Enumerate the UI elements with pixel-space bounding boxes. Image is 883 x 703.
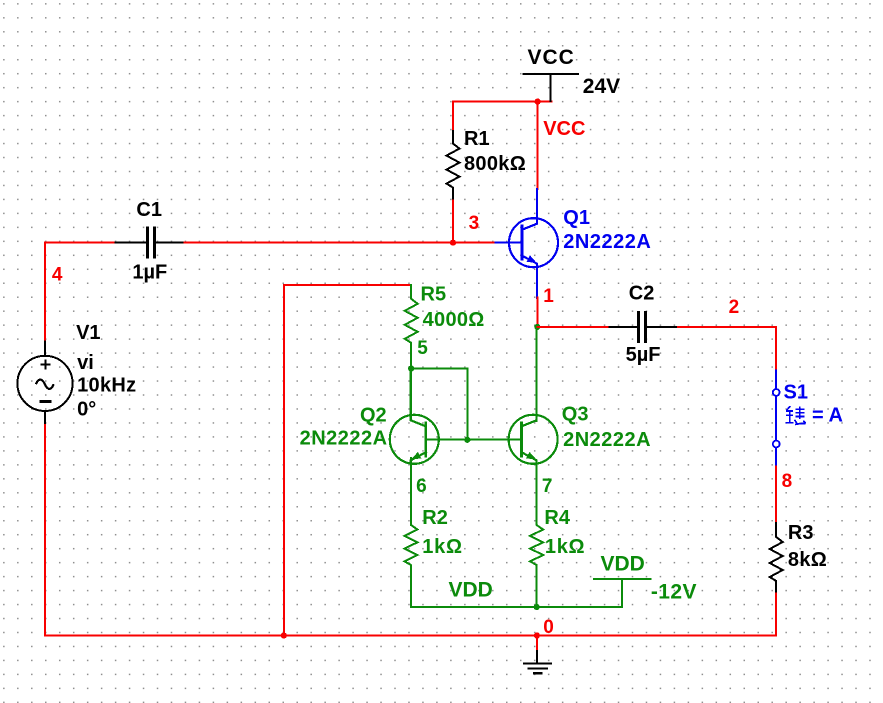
svg-text:8kΩ: 8kΩ xyxy=(788,549,827,571)
svg-text:4: 4 xyxy=(52,264,63,285)
svg-text:5µF: 5µF xyxy=(626,344,661,366)
svg-text:C1: C1 xyxy=(136,199,162,221)
svg-text:vi: vi xyxy=(77,352,94,374)
capacitor C2 xyxy=(610,326,639,328)
switch S1 xyxy=(775,370,777,389)
AC source V1 xyxy=(44,342,46,356)
svg-text:8: 8 xyxy=(782,471,793,492)
svg-text:2N2222A: 2N2222A xyxy=(563,429,651,451)
svg-text:2: 2 xyxy=(729,297,740,318)
wire V1 bottom to ground rail xyxy=(44,425,46,635)
wire R1 top vertical xyxy=(452,102,454,131)
wire C2 to switch corner xyxy=(678,326,776,328)
svg-text:Q3: Q3 xyxy=(562,404,589,426)
capacitor C1 xyxy=(115,242,147,244)
resistor R5 xyxy=(405,285,418,369)
svg-text:1: 1 xyxy=(543,286,554,307)
svg-text:Q2: Q2 xyxy=(360,404,387,426)
junction node 3 dot xyxy=(450,240,456,246)
junction base tie dot xyxy=(464,437,470,443)
transistor Q3 xyxy=(509,415,558,464)
svg-text:3: 3 xyxy=(469,213,480,234)
svg-text:6: 6 xyxy=(416,476,427,497)
svg-text:R2: R2 xyxy=(422,507,448,529)
svg-text:VCC: VCC xyxy=(543,118,585,140)
svg-text:1µF: 1µF xyxy=(132,261,167,283)
svg-text:Q1: Q1 xyxy=(563,207,590,229)
svg-text:1kΩ: 1kΩ xyxy=(422,536,462,558)
wire node5 to base tie horizontal xyxy=(411,368,467,370)
label key = A (switch key) xyxy=(786,406,806,424)
svg-text:2N2222A: 2N2222A xyxy=(300,428,388,450)
svg-text:-12V: -12V xyxy=(651,581,697,604)
svg-text:R3: R3 xyxy=(788,522,814,544)
svg-text:10kHz: 10kHz xyxy=(77,375,136,397)
wire VCC top horizontal xyxy=(453,101,552,103)
svg-text:VCC: VCC xyxy=(528,46,575,69)
wire base tie vertical xyxy=(466,369,468,440)
svg-text:= A: = A xyxy=(812,405,843,427)
resistor R4 xyxy=(530,463,543,607)
transistor Q1 xyxy=(509,218,558,267)
svg-text:S1: S1 xyxy=(784,381,808,403)
svg-text:5: 5 xyxy=(417,338,428,359)
power symbol VCC bar xyxy=(523,73,578,75)
svg-text:0: 0 xyxy=(543,617,554,638)
wire R3 bottom to rail xyxy=(775,593,777,635)
wire Q2 emitter to R2 xyxy=(410,458,412,525)
wire R5 branch vertical xyxy=(283,285,285,636)
svg-text:7: 7 xyxy=(542,476,553,497)
junction node 0 dot xyxy=(534,632,540,638)
svg-text:4000Ω: 4000Ω xyxy=(423,309,485,331)
wire VDD rail horizontal xyxy=(411,606,622,608)
junction node 1 dot xyxy=(534,324,540,330)
junction VCC node dot xyxy=(535,99,541,105)
wire VCC down to Q1 collector xyxy=(537,102,539,189)
wire node1 to Q3 collector xyxy=(536,327,538,421)
wire node 3 horizontal right segment xyxy=(184,242,495,244)
svg-text:C2: C2 xyxy=(629,282,655,304)
wire R1 bottom to node 3 xyxy=(452,201,454,243)
ground symbol xyxy=(536,636,538,652)
svg-text:VDD: VDD xyxy=(449,578,493,601)
wire R5 branch horizontal xyxy=(284,284,411,286)
svg-text:VDD: VDD xyxy=(601,552,645,575)
wire switch to R3 xyxy=(775,467,777,523)
svg-text:2N2222A: 2N2222A xyxy=(563,231,651,253)
svg-text:R5: R5 xyxy=(421,284,447,306)
svg-text:1kΩ: 1kΩ xyxy=(545,536,585,558)
wire left vertical from node 3 to V1 xyxy=(44,243,46,342)
svg-text:V1: V1 xyxy=(76,322,100,344)
transistor Q2 xyxy=(390,415,439,464)
wire node1 to C2 xyxy=(538,326,610,328)
wire node 3 horizontal left segment xyxy=(45,242,115,244)
junction node 5 dot xyxy=(408,365,414,371)
power symbol VDD bar xyxy=(594,578,651,580)
svg-text:R1: R1 xyxy=(464,128,490,150)
resistor R1 xyxy=(447,131,460,201)
resistor R2 xyxy=(405,463,418,607)
resistor R3 xyxy=(770,523,783,593)
junction bottom rail left dot xyxy=(281,632,287,638)
wire bottom ground rail (node 0) xyxy=(45,635,776,637)
wire Q1 emitter red segment xyxy=(537,298,539,327)
svg-text:800kΩ: 800kΩ xyxy=(464,153,526,175)
wire switch top red xyxy=(775,327,777,371)
svg-text:24V: 24V xyxy=(583,75,620,98)
svg-text:0°: 0° xyxy=(77,398,96,420)
junction VDD rail dot xyxy=(534,604,540,610)
svg-text:R4: R4 xyxy=(544,507,570,529)
